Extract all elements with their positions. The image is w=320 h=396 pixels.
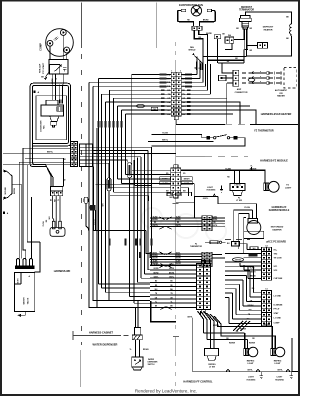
svg-text:LT SW: LT SW	[236, 200, 242, 202]
svg-text:CHP FAN: CHP FAN	[274, 277, 283, 280]
svg-text:BK/WH: BK/WH	[175, 219, 181, 221]
fan loop wires	[178, 11, 216, 27]
svg-text:DEFROST: DEFROST	[263, 27, 274, 29]
condenser fan motor	[41, 100, 64, 127]
P2 boxed labels	[160, 177, 171, 180]
fz light feed	[181, 170, 265, 183]
bottom-left cascade	[99, 266, 152, 304]
svg-text:DEFROST: DEFROST	[241, 7, 253, 9]
divider line x=175.6	[173, 42, 180, 388]
svg-text:MOTORIZED: MOTORIZED	[271, 227, 284, 229]
svg-text:RD/WH: RD/WH	[175, 255, 181, 257]
svg-text:MAKER: MAKER	[277, 95, 285, 98]
svg-text:GN/YL: GN/YL	[154, 276, 159, 278]
acc board connector C1	[262, 291, 272, 326]
amp connector	[233, 70, 239, 86]
divider dashes y=239.5 acc board	[225, 239, 250, 241]
svg-text:LIGHT: LIGHT	[248, 363, 255, 365]
svg-text:BK/WH: BK/WH	[162, 179, 168, 181]
svg-text:WH/TN: WH/TN	[152, 225, 158, 227]
divider dashes y=156.5 fz module	[176, 156, 205, 158]
relay ground lead	[46, 72, 49, 77]
power cord plug	[50, 196, 65, 237]
defrost terminator	[240, 16, 252, 50]
watermark	[142, 208, 226, 241]
heavy corner to divider	[151, 301, 176, 322]
FZ light bulb	[264, 181, 279, 192]
gn/yl bracket wire	[195, 197, 226, 219]
svg-text:TH COM: TH COM	[274, 258, 282, 260]
svg-text:BK/OR: BK/OR	[152, 258, 158, 260]
svg-text:GN: GN	[195, 67, 197, 69]
refrigerator light bulb 1	[244, 347, 258, 357]
heavy trunk bk/wh	[94, 167, 153, 254]
svg-text:YL: YL	[155, 302, 157, 304]
svg-text:RD/WH: RD/WH	[229, 342, 236, 344]
note flag A at border	[3, 212, 5, 214]
svg-text:AMP: AMP	[237, 88, 242, 91]
svg-text:OR/RD: OR/RD	[169, 268, 175, 270]
svg-text:HARNESS-WD: HARNESS-WD	[54, 270, 71, 273]
svg-text:GN/YL: GN/YL	[247, 369, 253, 371]
svg-text:2: 2	[180, 71, 181, 73]
wires from left connector to bundle	[93, 147, 177, 278]
divider dashes y=124 evap/heater	[225, 123, 250, 125]
extra trunk wires	[96, 185, 149, 201]
fz thermistor connector P5	[202, 252, 212, 266]
bundle group 1	[150, 218, 202, 227]
svg-text:BK/RD: BK/RD	[203, 20, 209, 22]
fz module connector P2	[171, 168, 181, 195]
svg-text:YL/RD: YL/RD	[249, 267, 255, 269]
automatic ice maker dashed box	[284, 68, 296, 89]
divider y=335.5 cabinet/water	[73, 331, 129, 340]
boxed label OR	[151, 107, 157, 110]
svg-text:BK/WH: BK/WH	[14, 187, 16, 194]
svg-text:SWITCH: SWITCH	[148, 364, 155, 366]
evaporator harness connector P1	[171, 72, 181, 116]
svg-text:GN/YL: GN/YL	[169, 276, 174, 278]
svg-text:CONNECTOR: CONNECTOR	[235, 92, 248, 94]
svg-text:COMP: COMP	[39, 43, 43, 51]
svg-text:BK/RD: BK/RD	[169, 272, 175, 274]
splice on wire	[137, 104, 145, 107]
svg-text:BK WH: BK WH	[17, 278, 19, 284]
svg-text:HARNESS-FF CONTROL: HARNESS-FF CONTROL	[183, 381, 213, 384]
left ground terminals	[4, 171, 13, 200]
svg-text:HARNESS-FZ MODULE: HARNESS-FZ MODULE	[260, 160, 288, 163]
svg-text:WATER: WATER	[23, 297, 26, 305]
receptacle pill	[84, 197, 88, 203]
water valve solenoid	[132, 328, 142, 340]
svg-text:1: 1	[171, 71, 172, 73]
svg-text:HARNESS-FF: HARNESS-FF	[272, 206, 287, 209]
svg-text:HOUSING: HOUSING	[275, 379, 284, 381]
svg-text:RD/WH: RD/WH	[248, 305, 254, 307]
cascade verticals	[89, 74, 132, 292]
note flag A	[34, 91, 36, 94]
svg-text:L3 GND: L3 GND	[274, 295, 282, 297]
svg-text:YL/BN: YL/BN	[225, 168, 231, 170]
svg-text:HEATER: HEATER	[264, 28, 273, 31]
svg-text:LT SW: LT SW	[209, 367, 215, 369]
bundle group 2	[150, 254, 202, 265]
svg-text:REFRIG: REFRIG	[247, 360, 255, 362]
relay output wires	[52, 74, 64, 100]
svg-text:PTC START: PTC START	[42, 62, 45, 74]
terminal block pins	[17, 259, 33, 266]
C2 left wires	[225, 250, 262, 279]
extra bundle verticals	[97, 128, 138, 307]
svg-text:YL: YL	[130, 349, 132, 351]
svg-text:BK/RD: BK/RD	[206, 33, 212, 35]
svg-text:BN/YL: BN/YL	[47, 151, 54, 153]
damper feed bundle	[225, 204, 256, 253]
condenser connector block	[51, 187, 63, 196]
svg-text:RD/WH: RD/WH	[264, 324, 271, 326]
svg-text:YL/GN: YL/GN	[43, 221, 45, 227]
svg-text:RD/WH: RD/WH	[152, 255, 158, 257]
P1 right-side wires	[181, 56, 210, 94]
svg-text:GN/YL: GN/YL	[277, 369, 283, 371]
svg-text:WATER DISPENSER: WATER DISPENSER	[93, 343, 118, 347]
svg-text:TERMINATOR: TERMINATOR	[239, 9, 254, 12]
svg-text:YL: YL	[56, 78, 58, 80]
harness-wd connector right half	[80, 144, 93, 167]
P3 rows and labels	[150, 266, 197, 308]
thermostat connector P4	[202, 216, 212, 231]
machine compartment outline	[30, 83, 70, 186]
svg-text:CONDENSER: CONDENSER	[40, 120, 42, 132]
evaporator fan motor	[191, 6, 201, 16]
svg-text:FF LIT: FF LIT	[274, 309, 281, 311]
svg-text:C1: C1	[265, 289, 267, 291]
svg-text:ICE: ICE	[279, 93, 283, 95]
svg-text:WH/YL: WH/YL	[162, 140, 169, 142]
svg-text:HARNESS-EVAP-HEATER: HARNESS-EVAP-HEATER	[261, 113, 292, 116]
fan lead wires	[194, 30, 207, 91]
defrost heater element	[290, 24, 292, 36]
wires down to light bundle	[233, 321, 250, 331]
svg-text:GN/YL: GN/YL	[203, 198, 209, 200]
svg-text:THERMISTOR: THERMISTOR	[190, 246, 203, 248]
svg-text:YL/GN: YL/GN	[244, 207, 250, 209]
svg-text:RD/WH: RD/WH	[250, 168, 257, 170]
compressor terminal marks	[54, 37, 59, 42]
bundle labels row mid	[109, 239, 153, 259]
svg-text:SHIELD: SHIELD	[188, 50, 196, 52]
wires down to terminal block	[12, 148, 64, 272]
wires compressor to relay	[50, 35, 67, 59]
acc board connector C2	[262, 247, 272, 280]
svg-text:uACC PC BOARD: uACC PC BOARD	[266, 241, 286, 244]
svg-text:OR/RD: OR/RD	[153, 268, 159, 270]
svg-text:DAMPER: DAMPER	[272, 229, 282, 232]
ice maker interface symbols	[242, 72, 281, 85]
P2 right exits	[176, 183, 194, 202]
svg-text:HOUSING: HOUSING	[247, 379, 256, 381]
svg-text:HARNESS-CABINET: HARNESS-CABINET	[89, 332, 114, 335]
svg-text:BK/WH: BK/WH	[152, 219, 158, 221]
svg-text:BK/WH: BK/WH	[184, 179, 190, 181]
svg-text:BK/YL: BK/YL	[176, 252, 181, 254]
svg-text:RD/WH: RD/WH	[213, 325, 220, 327]
heavy links to defrost	[203, 39, 246, 63]
svg-text:LIGHT: LIGHT	[275, 363, 282, 365]
svg-text:RD/WH: RD/WH	[143, 349, 149, 351]
svg-text:WH/GN: WH/GN	[235, 259, 241, 261]
svg-text:RD/WH: RD/WH	[240, 329, 247, 331]
connector box small	[214, 35, 220, 39]
svg-text:C NO NC: C NO NC	[234, 184, 242, 186]
refrig lt sw box	[193, 318, 292, 372]
divider line x=81.5	[80, 3, 83, 388]
svg-text:YL/BK: YL/BK	[163, 183, 169, 185]
fan connector	[192, 26, 202, 30]
svg-text:YL: YL	[170, 302, 172, 304]
defrost side connectors	[225, 37, 268, 48]
svg-text:STAT: STAT	[274, 312, 280, 315]
svg-text:RUN-CAP: RUN-CAP	[39, 63, 42, 73]
divider line x=157	[156, 3, 158, 49]
inline splice pills	[107, 163, 132, 191]
svg-text:REFRIG: REFRIG	[208, 364, 216, 366]
svg-text:L1 GND: L1 GND	[274, 317, 282, 319]
water valve feed wires	[89, 230, 150, 328]
C1 feed horizontals from left	[225, 267, 254, 298]
fz thermostat	[152, 135, 246, 147]
P1 lower right wires	[181, 98, 256, 124]
svg-text:GN/YL: GN/YL	[169, 197, 175, 199]
wires from P3 down to lights	[198, 311, 276, 348]
water valve box	[15, 273, 35, 316]
svg-text:LIGHT: LIGHT	[285, 188, 292, 190]
svg-text:REFRIG: REFRIG	[274, 360, 282, 362]
harness-wd connector left half	[71, 142, 78, 167]
harness-evap-heater wire	[176, 123, 298, 125]
refrig light switch	[205, 349, 219, 361]
svg-text:RD/WH: RD/WH	[249, 342, 256, 344]
svg-text:BK/OR: BK/OR	[175, 258, 181, 260]
svg-text:WATER: WATER	[148, 358, 155, 361]
P3 funnel	[161, 264, 172, 310]
P1 bottom stub	[175, 120, 177, 125]
cascade turn-ins to P2 rows	[110, 170, 171, 192]
svg-text:D-SENSE: D-SENSE	[274, 304, 284, 306]
wire cascade to evap connector	[89, 74, 171, 114]
svg-text:HOUSING: HOUSING	[207, 190, 216, 192]
svg-text:C2: C2	[265, 245, 267, 247]
svg-text:BK/WH: BK/WH	[94, 218, 96, 225]
svg-text:Rendered by LeadVenture, Inc.: Rendered by LeadVenture, Inc.	[135, 388, 197, 393]
svg-text:WH/OR: WH/OR	[175, 263, 181, 265]
light housing ground rail	[226, 369, 298, 378]
svg-text:BK/WH: BK/WH	[250, 272, 256, 274]
svg-text:GROUND: GROUND	[5, 186, 7, 194]
svg-text:BK/RD: BK/RD	[153, 272, 159, 274]
condenser fan pins	[59, 100, 63, 104]
svg-text:DAMPER MODULE: DAMPER MODULE	[269, 209, 290, 212]
amp connector wires	[218, 60, 244, 124]
svg-text:BK/YL: BK/YL	[153, 252, 158, 254]
svg-text:VALVE: VALVE	[27, 297, 30, 304]
wh/yl wire	[148, 141, 214, 143]
fan terminal pads	[181, 9, 185, 12]
motorized damper	[244, 219, 264, 239]
svg-text:YL: YL	[199, 67, 201, 69]
P1 row label smudges	[160, 74, 193, 116]
refrigerator light bulb 2	[271, 347, 285, 357]
compressor motor C1	[46, 29, 74, 57]
svg-text:YL/GN: YL/GN	[162, 133, 168, 135]
svg-text:COMP: COMP	[274, 323, 281, 325]
svg-text:WH: WH	[167, 106, 171, 108]
main control connector P3	[197, 264, 211, 310]
svg-text:LIGHT: LIGHT	[277, 377, 284, 379]
water dispenser switch	[132, 357, 143, 370]
svg-text:WH/TN: WH/TN	[175, 225, 181, 227]
fz light switch	[235, 170, 240, 183]
svg-text:FZ THERMISTOR: FZ THERMISTOR	[254, 130, 274, 133]
C1 left wires cascade	[229, 267, 262, 324]
start relay / overload box	[49, 60, 68, 75]
svg-text:AUTOMATIC: AUTOMATIC	[275, 89, 288, 92]
svg-text:LIGHT: LIGHT	[207, 187, 214, 189]
long horizontal wires left	[3, 148, 71, 165]
svg-text:LIGHT: LIGHT	[248, 377, 255, 379]
defrost wires	[225, 12, 291, 61]
wire labels on bundle	[98, 121, 123, 128]
